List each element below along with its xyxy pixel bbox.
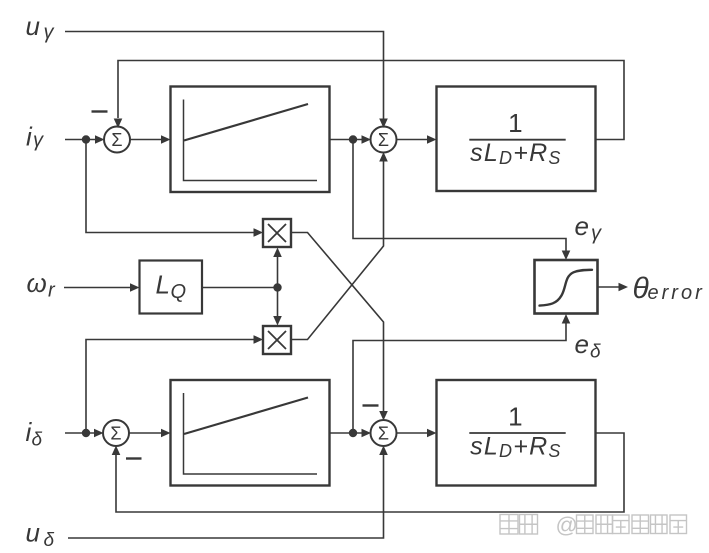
svg-text:δ: δ: [32, 430, 43, 451]
svg-text:δ: δ: [44, 530, 55, 551]
svg-text:L: L: [156, 270, 170, 300]
svg-text:δ: δ: [590, 342, 601, 363]
svg-text:sLD+RS: sLD+RS: [470, 139, 562, 168]
svg-text:γ: γ: [44, 22, 55, 44]
svg-text:1: 1: [508, 108, 522, 138]
svg-text:Σ: Σ: [378, 130, 389, 150]
svg-text:@: @: [556, 513, 578, 538]
svg-text:γ: γ: [591, 223, 602, 245]
svg-text:Σ: Σ: [110, 424, 121, 444]
svg-text:γ: γ: [33, 130, 44, 152]
svg-text:e: e: [575, 329, 589, 359]
svg-text:e: e: [575, 211, 589, 241]
svg-text:sLD+RS: sLD+RS: [470, 432, 562, 461]
svg-text:1: 1: [508, 401, 522, 431]
svg-text:u: u: [26, 11, 40, 41]
svg-text:Q: Q: [171, 281, 187, 303]
svg-text:Σ: Σ: [378, 424, 389, 444]
svg-text:error: error: [648, 282, 705, 304]
svg-text:ω: ω: [27, 268, 47, 298]
svg-text:u: u: [26, 518, 40, 548]
svg-text:Σ: Σ: [111, 130, 122, 150]
